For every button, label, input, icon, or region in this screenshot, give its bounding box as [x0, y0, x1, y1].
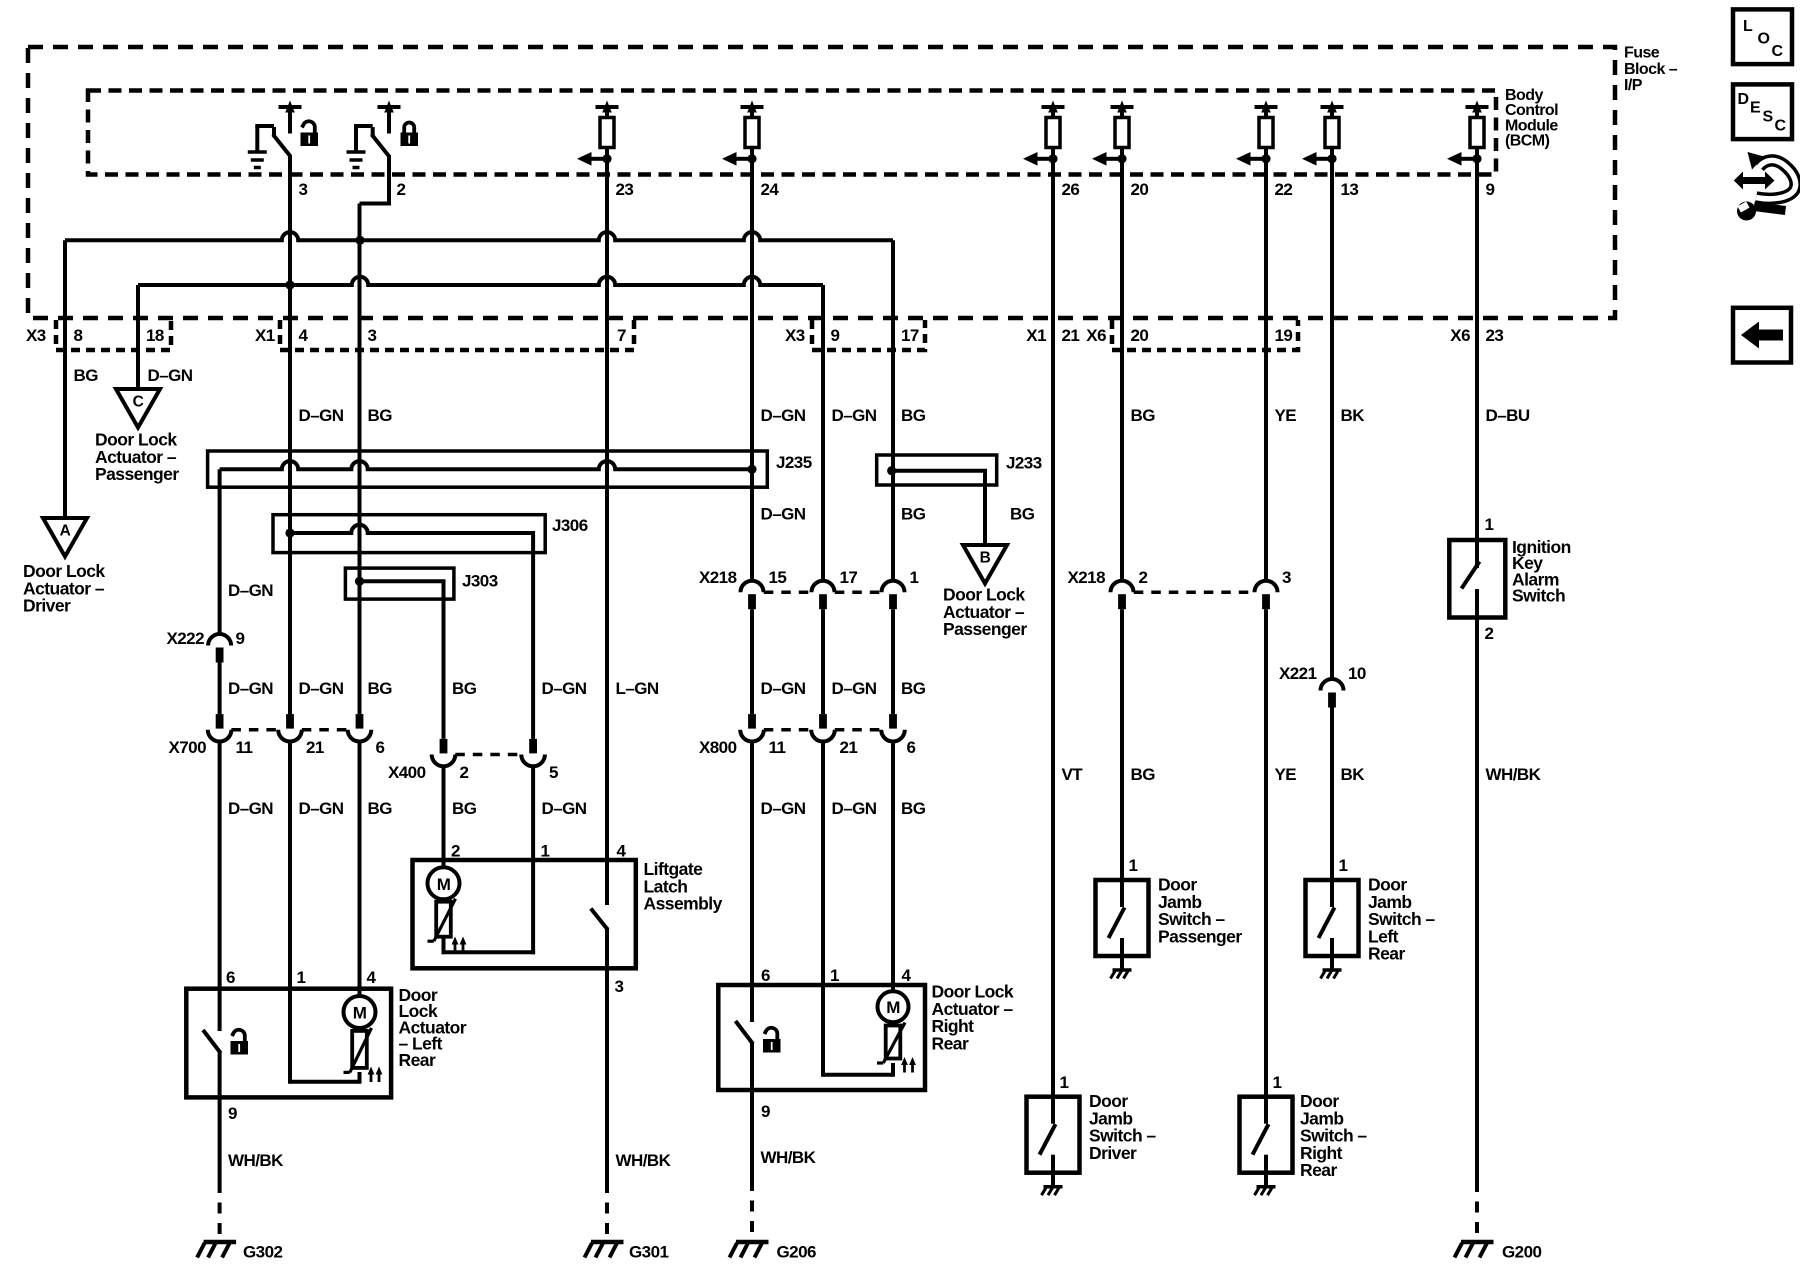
svg-text:D–GN: D–GN	[299, 799, 344, 818]
exchange-wrench icon	[1734, 172, 1775, 190]
actuator LR motor wire upper	[358, 989, 362, 997]
svg-text:2: 2	[451, 842, 460, 861]
svg-text:21: 21	[840, 738, 858, 757]
actuator LR PTC thermistor	[352, 1031, 367, 1068]
svg-text:20: 20	[1131, 326, 1149, 345]
svg-text:D–GN: D–GN	[761, 406, 806, 425]
BCM output driver resistor pin 20	[1117, 101, 1127, 113]
connector box X6 pins 20-19	[1112, 320, 1298, 350]
BCM output driver resistor pin 22	[1261, 101, 1271, 113]
svg-text:20: 20	[1131, 180, 1149, 199]
svg-text:D–GN: D–GN	[761, 505, 806, 524]
dashed wire to G206	[750, 1180, 754, 1241]
BCM output driver resistor pin 9	[1472, 101, 1482, 113]
svg-text:23: 23	[1486, 326, 1504, 345]
wire X800-21 to actuator RR pin 1	[821, 742, 825, 986]
svg-text:BG: BG	[901, 505, 926, 524]
DESC icon box	[1733, 84, 1792, 139]
X218 pin 1 connector	[882, 581, 905, 593]
X218 pin 2 connector	[1111, 581, 1134, 593]
svg-text:Driver: Driver	[1089, 1143, 1137, 1163]
BCM output arrow pin 20	[1117, 154, 1126, 163]
svg-text:2: 2	[397, 180, 406, 199]
X218 tie dashes group1	[764, 590, 811, 594]
svg-text:G301: G301	[629, 1243, 668, 1262]
liftgate PTC arrows	[454, 942, 457, 952]
X218 pin 15 connector	[741, 581, 764, 593]
door lock actuator right rear box	[718, 985, 925, 1090]
svg-text:D–GN: D–GN	[761, 799, 806, 818]
svg-text:BG: BG	[901, 406, 926, 425]
svg-text:C: C	[1775, 118, 1787, 135]
svg-text:M: M	[437, 875, 451, 894]
svg-text:D: D	[1738, 91, 1749, 108]
ground G200	[1461, 1240, 1494, 1245]
svg-text:D–GN: D–GN	[299, 679, 344, 698]
svg-text:9: 9	[831, 326, 840, 345]
dashed wire to G302	[218, 1182, 222, 1241]
svg-text:BK: BK	[1341, 406, 1366, 425]
connector box X1 pins 4-3-7	[280, 320, 634, 350]
BCM output driver resistor pin 24	[747, 101, 757, 113]
svg-text:A: A	[60, 523, 71, 540]
wire X218-17 to X800-21	[821, 609, 825, 714]
svg-text:1: 1	[1129, 856, 1138, 875]
svg-text:1: 1	[541, 842, 550, 861]
ignition key alarm switch contacts	[1475, 540, 1479, 568]
svg-text:X3: X3	[785, 326, 805, 345]
svg-text:C: C	[1772, 43, 1784, 60]
door jamb switch right rear	[1240, 1097, 1293, 1173]
wire BCM-26 to door jamb driver (VT)	[1051, 148, 1055, 1097]
dashed wire to G200	[1475, 1181, 1479, 1241]
svg-text:J306: J306	[552, 516, 588, 535]
svg-text:3: 3	[368, 326, 377, 345]
actuator LR bottom loop	[358, 1072, 362, 1084]
svg-text:Rear: Rear	[1368, 944, 1405, 964]
svg-text:1: 1	[297, 968, 306, 987]
svg-text:WH/BK: WH/BK	[616, 1151, 672, 1170]
svg-text:Switch: Switch	[1512, 586, 1565, 606]
BCM output arrow pin 23	[602, 154, 611, 163]
triangle C (Door Lock Actuator - Passenger)	[116, 389, 160, 428]
svg-text:22: 22	[1275, 180, 1293, 199]
svg-text:BG: BG	[1010, 505, 1035, 524]
svg-text:M: M	[353, 1004, 367, 1023]
liftgate latch switch	[605, 860, 609, 905]
wire X700-21 to actuator pin 1	[288, 742, 292, 989]
BCM output driver resistor pin 13	[1327, 101, 1337, 113]
BCM output arrow pin 9	[1472, 154, 1481, 163]
wire J235 left end down to X222-9 (D-GN)	[218, 469, 222, 634]
svg-text:M: M	[886, 998, 900, 1017]
svg-text:D–BU: D–BU	[1486, 406, 1530, 425]
wire BCM-23 to liftgate pin 4 (L-GN)	[605, 148, 609, 861]
svg-text:D–GN: D–GN	[148, 366, 193, 385]
connector box X3 pins 8-18	[56, 320, 171, 350]
junction dot D-GN bus / wire X1-4	[285, 280, 294, 289]
svg-text:9: 9	[1486, 180, 1495, 199]
svg-text:5: 5	[549, 763, 558, 782]
liftgate latch PTC thermistor	[436, 902, 451, 937]
actuator LR open padlock	[231, 1041, 249, 1055]
svg-text:YE: YE	[1275, 406, 1297, 425]
liftgate latch motor M	[428, 867, 460, 899]
junction dot BG bus / wire X1-3	[355, 236, 364, 245]
BCM output arrow pin 22	[1261, 154, 1270, 163]
svg-text:BG: BG	[901, 679, 926, 698]
X221 pin 10 inline connector	[1321, 679, 1344, 691]
X218 pin 17 connector	[812, 581, 835, 593]
closed padlock icon (lock)	[401, 133, 419, 147]
wire D-GN from bus to X3-18	[136, 285, 140, 389]
svg-text:BG: BG	[452, 799, 477, 818]
svg-text:WH/BK: WH/BK	[761, 1148, 817, 1167]
svg-text:Rear: Rear	[1300, 1160, 1337, 1180]
actuator RR open padlock	[763, 1039, 781, 1053]
svg-text:3: 3	[1282, 568, 1291, 587]
D-GN bus (horizontal net from X3-18 to X3-9)	[138, 277, 823, 285]
svg-text:S: S	[1763, 109, 1774, 126]
actuator RR motor M	[878, 991, 909, 1022]
wire X1-3 to X700-6 (BG)	[358, 206, 362, 715]
svg-text:3: 3	[615, 977, 624, 996]
BCM output arrow pin 13	[1327, 154, 1336, 163]
svg-text:1: 1	[910, 568, 919, 587]
svg-text:2: 2	[1139, 568, 1148, 587]
svg-text:8: 8	[74, 326, 83, 345]
svg-text:BK: BK	[1341, 765, 1366, 784]
svg-text:17: 17	[840, 568, 858, 587]
actuator RR bottom loop	[891, 1063, 895, 1077]
actuator LR PTC arrows	[370, 1072, 373, 1082]
junction dot J306 / wire W3	[285, 528, 294, 537]
wire X3-17 to X218-1 (BG)	[891, 240, 895, 580]
actuator RR PTC arrows	[903, 1063, 906, 1073]
svg-text:6: 6	[761, 966, 770, 985]
liftgate latch motor wire upper	[442, 860, 446, 868]
svg-text:13: 13	[1341, 180, 1359, 199]
ignition key alarm switch box	[1449, 540, 1505, 618]
svg-text:BG: BG	[1131, 765, 1156, 784]
svg-text:4: 4	[902, 966, 912, 985]
svg-text:X3: X3	[26, 326, 46, 345]
splice pack J235 box	[208, 451, 768, 487]
X700 tie dashes	[231, 728, 278, 732]
svg-text:G200: G200	[1502, 1243, 1541, 1262]
X222 pin 9 inline connector	[208, 634, 231, 646]
svg-text:2: 2	[460, 763, 469, 782]
BCM output arrow pin 24	[747, 154, 756, 163]
svg-text:7: 7	[617, 326, 626, 345]
wire BCM-13 to X221-10 (BK)	[1330, 148, 1334, 680]
wire BCM-9 to ignition key alarm switch (D-BU)	[1475, 148, 1479, 541]
wire X700-11 to actuator pin 6	[218, 742, 222, 989]
wire BCM-3 to X700-21 (D-GN)	[288, 155, 292, 714]
actuator RR PTC thermistor	[886, 1026, 901, 1059]
door jamb switch driver	[1027, 1097, 1080, 1173]
junction dot J233 / wire W8	[887, 466, 896, 475]
svg-text:YE: YE	[1275, 765, 1297, 784]
svg-text:O: O	[1758, 31, 1770, 48]
X400 pin 2 connector	[440, 739, 448, 754]
X218 tie dashes group2	[1134, 590, 1254, 594]
actuator LR motor M	[344, 996, 376, 1028]
splice J306 box	[273, 515, 545, 553]
svg-text:9: 9	[761, 1102, 770, 1121]
wire actuator RR pin 9 down (WH/BK)	[750, 1090, 754, 1180]
svg-text:24: 24	[761, 180, 780, 199]
svg-text:Passenger: Passenger	[95, 464, 179, 484]
wire BCM-22 to X218-3 (YE)	[1264, 148, 1268, 581]
svg-text:D–GN: D–GN	[542, 799, 587, 818]
svg-text:J303: J303	[462, 572, 498, 591]
X700 pin 21 connector	[286, 714, 294, 729]
svg-text:11: 11	[236, 738, 253, 757]
svg-text:1: 1	[1273, 1073, 1282, 1092]
X700 pin 11 connector	[216, 714, 224, 729]
splice J235 internal wire	[220, 461, 752, 469]
svg-text:X700: X700	[168, 738, 206, 757]
splice J303 box	[345, 568, 454, 599]
svg-text:Assembly: Assembly	[644, 894, 723, 914]
wire X218-2 to jamb passenger	[1120, 609, 1124, 880]
wire X800-6 to actuator RR pin 4	[891, 742, 895, 986]
svg-text:6: 6	[907, 738, 916, 757]
svg-text:D–GN: D–GN	[832, 679, 877, 698]
svg-text:X6: X6	[1086, 326, 1106, 345]
svg-text:X1: X1	[255, 326, 275, 345]
svg-text:18: 18	[146, 326, 164, 345]
svg-text:19: 19	[1275, 326, 1293, 345]
door jamb switch passenger	[1096, 880, 1149, 956]
wire ignition-2 down (WH/BK)	[1475, 618, 1479, 1182]
junction dot J235 / wire 24	[747, 465, 756, 474]
splice J233 internal wire	[892, 471, 985, 545]
svg-text:D–GN: D–GN	[228, 679, 273, 698]
wire BG from bus to X3-8	[63, 240, 67, 518]
svg-text:Rear: Rear	[399, 1050, 436, 1070]
wire X218-15 to X800-11	[750, 609, 754, 714]
svg-text:4: 4	[299, 326, 309, 345]
door jamb switch left rear	[1306, 880, 1359, 956]
svg-text:WH/BK: WH/BK	[228, 1151, 284, 1170]
X700 pin 6 connector	[356, 714, 364, 729]
svg-text:C: C	[133, 394, 144, 411]
pin 7 crossing label none	[0, 0, 1, 1]
svg-text:D–GN: D–GN	[542, 679, 587, 698]
svg-text:21: 21	[1062, 326, 1080, 345]
svg-text:9: 9	[236, 629, 245, 648]
svg-text:2: 2	[1485, 624, 1494, 643]
svg-text:6: 6	[376, 738, 385, 757]
wire BCM-20 to X218-2 (BG)	[1120, 148, 1124, 581]
dashed wire to G301	[605, 1182, 609, 1241]
svg-text:G302: G302	[243, 1243, 282, 1262]
svg-text:X400: X400	[388, 763, 426, 782]
wire X221-10 to jamb left rear	[1330, 708, 1334, 881]
svg-text:D–GN: D–GN	[761, 679, 806, 698]
svg-text:4: 4	[367, 968, 377, 987]
splice J303 internal wire	[360, 581, 444, 739]
svg-text:X218: X218	[1067, 568, 1105, 587]
ground G302	[204, 1240, 237, 1245]
svg-text:D–GN: D–GN	[228, 799, 273, 818]
svg-text:17: 17	[901, 326, 919, 345]
X800 pin 11 connector	[748, 714, 756, 729]
liftgate latch assembly box	[413, 860, 636, 968]
X800 pin 21 connector	[819, 714, 827, 729]
wire X700-6 to actuator pin 4	[358, 742, 362, 989]
BCM unlock switch S1	[255, 126, 259, 153]
BCM output driver resistor pin 26	[1048, 101, 1058, 113]
svg-text:WH/BK: WH/BK	[1486, 765, 1542, 784]
svg-text:B: B	[980, 550, 991, 567]
svg-text:Driver: Driver	[23, 596, 71, 616]
svg-text:D–GN: D–GN	[832, 406, 877, 425]
svg-text:Fuse: Fuse	[1624, 45, 1660, 62]
svg-text:J235: J235	[776, 453, 812, 472]
svg-text:I/P: I/P	[1624, 77, 1643, 94]
svg-text:X221: X221	[1279, 664, 1317, 683]
wire liftgate-3 down (WH/BK)	[605, 968, 609, 1182]
fuse block I/P dashed box	[28, 47, 1615, 318]
svg-text:Passenger: Passenger	[1158, 926, 1242, 946]
wire X218-3 to jamb right rear	[1264, 609, 1268, 1096]
svg-text:Passenger: Passenger	[943, 619, 1027, 639]
back arrow icon box	[1733, 308, 1791, 363]
svg-text:4: 4	[617, 842, 627, 861]
BG bus (horizontal net from X3-8 to X3-17)	[65, 232, 893, 240]
ground G301	[591, 1240, 624, 1245]
svg-text:BG: BG	[368, 406, 393, 425]
svg-text:1: 1	[1485, 515, 1494, 534]
wire X222 to X700-11	[218, 663, 222, 715]
svg-text:10: 10	[1348, 664, 1366, 683]
actuator RR switch	[750, 985, 754, 1022]
junction dot J303 / wire W4	[355, 577, 364, 586]
svg-text:E: E	[1750, 100, 1761, 117]
svg-text:1: 1	[830, 966, 839, 985]
X400 pin 5 connector	[529, 739, 537, 754]
BCM lock switch S2	[354, 126, 358, 153]
ground G206	[736, 1240, 769, 1245]
liftgate motor branch bottom wire	[442, 938, 446, 954]
connector box X3 pins 9-17	[812, 320, 925, 350]
svg-text:9: 9	[228, 1104, 237, 1123]
open padlock icon (unlock)	[301, 133, 319, 147]
LOC icon box	[1733, 9, 1792, 64]
svg-text:X222: X222	[166, 629, 204, 648]
wire S2 pole jog	[387, 155, 391, 206]
svg-text:Rear: Rear	[932, 1033, 969, 1053]
svg-text:J233: J233	[1006, 454, 1042, 473]
svg-text:BG: BG	[1131, 406, 1156, 425]
body control module dashed box	[88, 91, 1496, 175]
actuator RR motor wire upper	[891, 985, 895, 992]
svg-text:1: 1	[1339, 856, 1348, 875]
X800 pin 6 connector	[889, 714, 897, 729]
svg-text:1: 1	[1060, 1073, 1069, 1092]
svg-text:BG: BG	[368, 799, 393, 818]
wire actuator LR pin 9 down (WH/BK)	[218, 1097, 222, 1182]
svg-text:X800: X800	[699, 738, 737, 757]
door lock actuator left rear box	[186, 989, 391, 1098]
wire X3-9 to X218-17 (D-GN)	[821, 285, 825, 581]
svg-text:BG: BG	[74, 366, 99, 385]
svg-text:BG: BG	[368, 679, 393, 698]
svg-text:D–GN: D–GN	[299, 406, 344, 425]
svg-text:D–GN: D–GN	[228, 581, 273, 600]
splice J306 internal wire	[290, 525, 533, 739]
actuator LR switch	[218, 989, 222, 1031]
BCM output arrow pin 26	[1048, 154, 1057, 163]
svg-text:L–GN: L–GN	[616, 679, 659, 698]
X218 pin 3 connector	[1255, 581, 1278, 593]
wire X400-5 to liftgate pin 1 (D-GN)	[531, 766, 535, 860]
wire X800-11 to actuator RR pin 6	[750, 742, 754, 986]
splice J233 box	[877, 455, 997, 485]
svg-text:21: 21	[306, 738, 324, 757]
svg-text:X218: X218	[699, 568, 737, 587]
svg-text:X1: X1	[1026, 326, 1046, 345]
svg-text:D–GN: D–GN	[832, 799, 877, 818]
svg-text:Block –: Block –	[1624, 61, 1678, 78]
svg-text:BG: BG	[452, 679, 477, 698]
svg-text:BG: BG	[901, 799, 926, 818]
wire X218-1 to X800-6	[891, 609, 895, 714]
svg-text:X6: X6	[1450, 326, 1470, 345]
triangle B (Door Lock Actuator - Passenger)	[963, 545, 1007, 584]
wire X400-2 to liftgate pin 2 (BG)	[442, 766, 446, 860]
X800 tie dashes	[764, 728, 811, 732]
BCM output driver resistor pin 23	[602, 101, 612, 113]
svg-text:26: 26	[1062, 180, 1080, 199]
svg-text:(BCM): (BCM)	[1505, 133, 1550, 150]
svg-text:6: 6	[226, 968, 235, 987]
svg-text:L: L	[1743, 18, 1753, 35]
svg-text:G206: G206	[777, 1243, 816, 1262]
svg-text:15: 15	[769, 568, 787, 587]
svg-text:11: 11	[769, 738, 786, 757]
X400 tie dashes	[455, 753, 521, 757]
wire BCM-24 to X218-15 (D-GN)	[750, 148, 754, 581]
svg-text:23: 23	[616, 180, 634, 199]
svg-text:3: 3	[299, 180, 308, 199]
triangle A (Door Lock Actuator - Driver)	[43, 518, 87, 557]
svg-text:VT: VT	[1062, 765, 1084, 784]
